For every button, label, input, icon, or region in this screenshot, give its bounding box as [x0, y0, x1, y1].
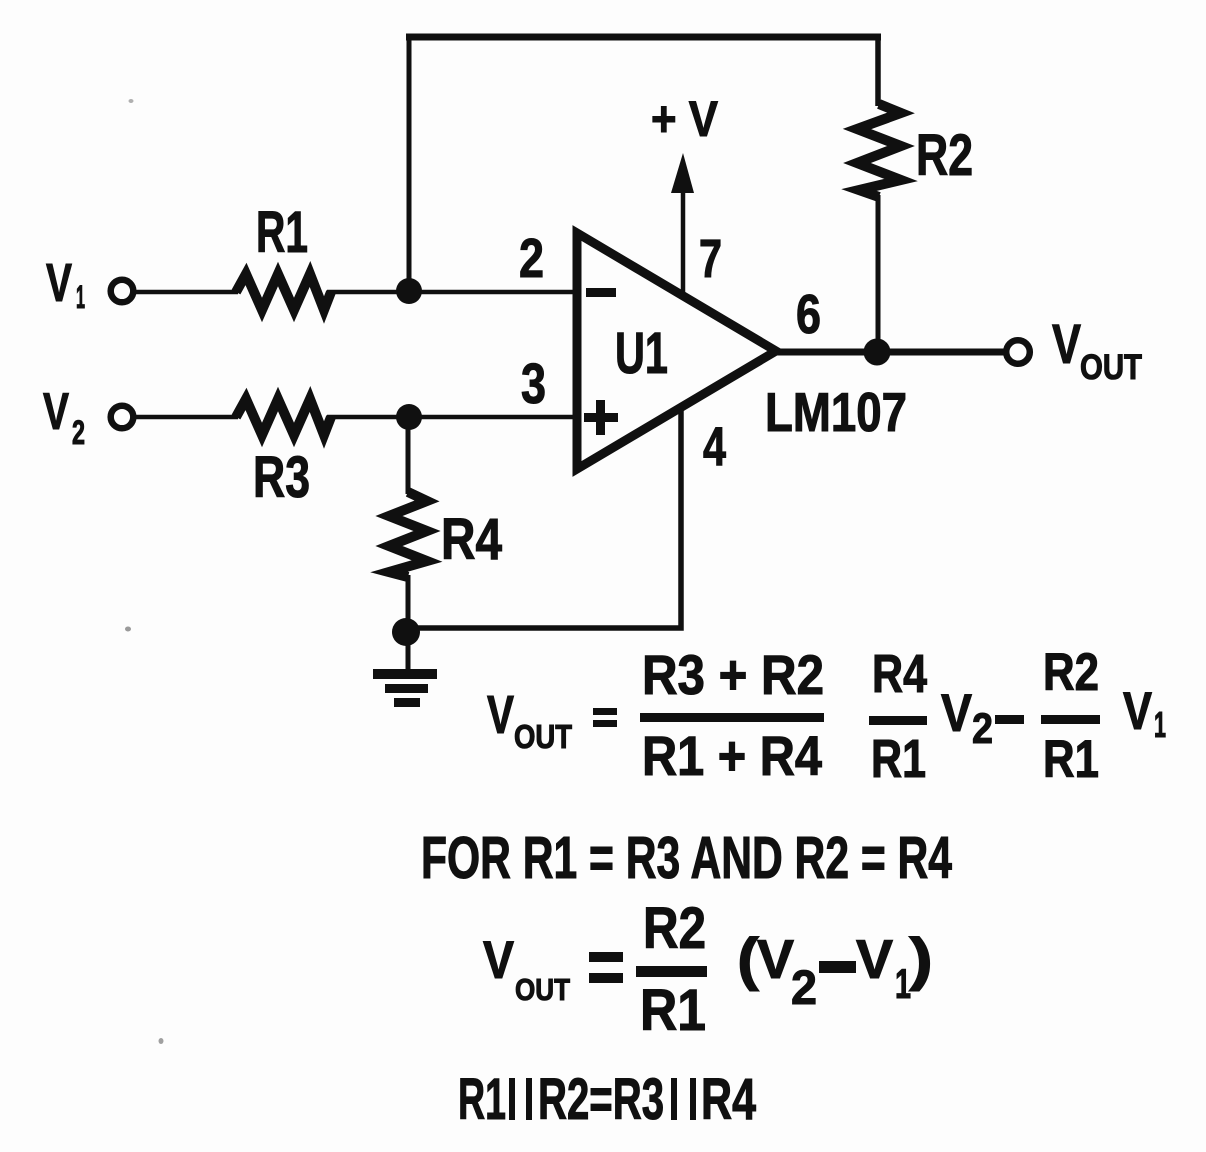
- svg-text:R2: R2: [916, 123, 973, 188]
- svg-text:7: 7: [699, 229, 722, 289]
- svg-text:): ): [909, 927, 933, 992]
- svg-text:6: 6: [796, 283, 821, 345]
- svg-text:1: 1: [1154, 704, 1166, 745]
- svg-text:V: V: [487, 685, 514, 745]
- svg-text:2: 2: [791, 962, 817, 1015]
- svg-text:2: 2: [72, 414, 85, 452]
- svg-text:V: V: [483, 931, 514, 990]
- svg-text:R1: R1: [1043, 730, 1099, 789]
- svg-text:LM107: LM107: [765, 381, 907, 443]
- svg-text:V: V: [46, 253, 72, 313]
- svg-text:4: 4: [703, 415, 726, 477]
- svg-text:R3: R3: [253, 445, 310, 510]
- svg-text:V: V: [43, 383, 69, 441]
- svg-text:V: V: [757, 928, 794, 990]
- svg-text:1: 1: [76, 279, 85, 315]
- svg-text:R1: R1: [458, 1067, 506, 1132]
- svg-text:R2=R3: R2=R3: [538, 1067, 664, 1132]
- svg-text:R4: R4: [872, 644, 927, 704]
- svg-text:R1: R1: [871, 729, 926, 789]
- svg-text:OUT: OUT: [515, 972, 570, 1007]
- svg-text:R3 + R2: R3 + R2: [642, 643, 824, 706]
- svg-text:V: V: [1123, 682, 1152, 741]
- svg-text:R1: R1: [640, 978, 706, 1043]
- svg-text:R4: R4: [441, 507, 502, 572]
- svg-text:V: V: [941, 684, 972, 743]
- svg-text:V: V: [1052, 312, 1081, 375]
- svg-text:V: V: [856, 928, 893, 990]
- svg-text:OUT: OUT: [1080, 348, 1142, 387]
- svg-text:2: 2: [519, 227, 544, 289]
- svg-text:+ V: + V: [651, 91, 719, 147]
- svg-text:R2: R2: [643, 896, 706, 961]
- svg-text:R1 + R4: R1 + R4: [642, 724, 822, 787]
- svg-text:FOR R1 = R3 AND R2 = R4: FOR R1 = R3 AND R2 = R4: [421, 825, 952, 891]
- svg-text:2: 2: [972, 705, 993, 753]
- svg-text:R1: R1: [256, 200, 308, 265]
- svg-text:U1: U1: [615, 321, 668, 386]
- svg-text:R2: R2: [1043, 643, 1099, 702]
- svg-text:OUT: OUT: [514, 718, 572, 755]
- svg-text:R4: R4: [701, 1067, 756, 1132]
- svg-text:3: 3: [521, 352, 546, 416]
